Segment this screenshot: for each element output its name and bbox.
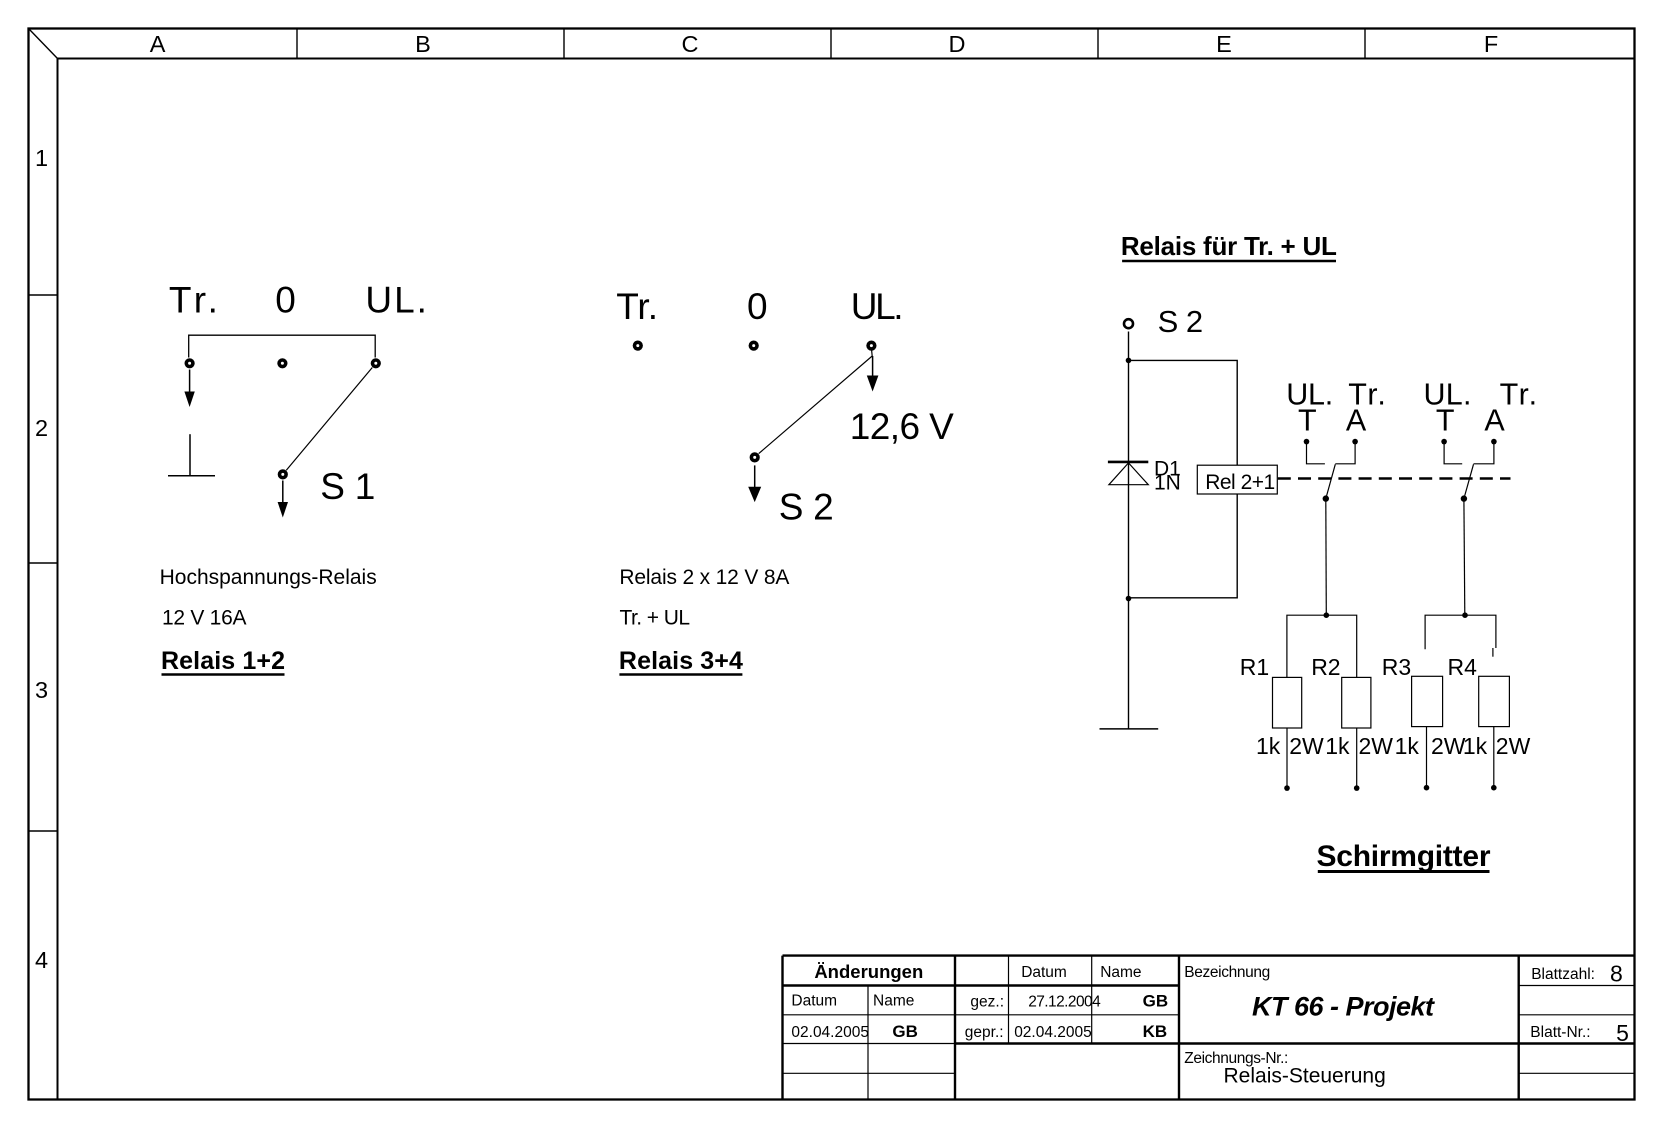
svg-text:A: A (1484, 404, 1505, 438)
arrow to ground from Tr (184, 370, 194, 408)
svg-text:B: B (415, 31, 431, 57)
svg-text:5: 5 (1616, 1020, 1629, 1046)
wire R1R2 header (1287, 615, 1357, 677)
svg-text:T: T (1298, 404, 1317, 438)
svg-text:12,6 V: 12,6 V (850, 406, 954, 447)
svg-text:0: 0 (747, 286, 768, 327)
svg-text:2W: 2W (1289, 733, 1324, 759)
svg-text:A: A (1346, 404, 1367, 438)
svg-text:02.04.2005: 02.04.2005 (1014, 1024, 1092, 1041)
svg-text:Tr. + UL: Tr. + UL (620, 606, 691, 629)
terminal below R2 (1354, 785, 1360, 791)
heading Relais fuer Tr. + UL (1121, 231, 1337, 261)
arrow below S2 pivot (middle) (748, 465, 761, 502)
wire bus S1 (top horizontal with drops) (189, 335, 376, 357)
svg-text:Relais 3+4: Relais 3+4 (619, 647, 743, 675)
svg-text:UL.: UL. (365, 279, 427, 320)
svg-text:GB: GB (892, 1022, 918, 1041)
svg-text:4: 4 (35, 947, 48, 973)
node junction R3R4 (1462, 612, 1468, 618)
wire pivot to junction (group 1) (1325, 499, 1328, 616)
wire relay coil loop (1129, 360, 1238, 597)
terminal A (group 2) (1491, 439, 1497, 445)
terminal T (group 1) (1304, 439, 1310, 445)
switch S1 pivot (278, 469, 288, 479)
svg-text:Blatt-Nr.:: Blatt-Nr.: (1530, 1024, 1590, 1041)
relay contact blade (group 2) (1464, 464, 1474, 498)
svg-text:Name: Name (873, 993, 914, 1010)
svg-text:UL.: UL. (851, 286, 904, 327)
svg-text:Datum: Datum (1021, 964, 1067, 981)
svg-text:S 2: S 2 (1158, 304, 1204, 339)
resistor R4 (1479, 676, 1510, 726)
svg-text:GB: GB (1143, 991, 1169, 1010)
svg-text:gez.:: gez.: (970, 993, 1004, 1010)
svg-text:Schirmgitter: Schirmgitter (1317, 840, 1491, 873)
resistor R3 (1412, 676, 1443, 726)
svg-text:R4: R4 (1448, 654, 1478, 680)
svg-text:2W: 2W (1359, 733, 1394, 759)
heading Schirmgitter (1317, 840, 1491, 873)
svg-text:R1: R1 (1240, 654, 1269, 680)
terminal Tr (middle) (633, 341, 643, 351)
wire below R3 (1426, 727, 1428, 785)
switch S1 blade (286, 368, 372, 471)
terminal below R3 (1424, 785, 1430, 791)
svg-text:KT 66 - Projekt: KT 66 - Projekt (1252, 992, 1435, 1022)
svg-text:2W: 2W (1496, 733, 1531, 759)
svg-text:1k: 1k (1463, 733, 1488, 759)
terminal UL (left) (371, 358, 381, 368)
svg-text:Tr.: Tr. (1500, 377, 1538, 411)
node junction bottom (1126, 596, 1132, 602)
wire pivot to junction (group 2) (1463, 499, 1466, 616)
wire R3R4 header (1425, 615, 1496, 649)
svg-text:Relais für Tr. + UL: Relais für Tr. + UL (1121, 231, 1337, 261)
svg-text:1k: 1k (1256, 733, 1281, 759)
wire stub above R4 (1492, 648, 1494, 657)
svg-text:1k: 1k (1325, 733, 1350, 759)
svg-text:1N: 1N (1154, 472, 1181, 495)
svg-text:Rel 2+1: Rel 2+1 (1205, 471, 1275, 494)
svg-text:3: 3 (35, 677, 48, 703)
svg-text:2: 2 (35, 415, 48, 441)
terminal UL (middle) (866, 341, 876, 351)
svg-text:0: 0 (275, 279, 296, 320)
svg-text:Tr.: Tr. (169, 279, 218, 320)
svg-text:8: 8 (1610, 960, 1623, 986)
mechanical link dashed (1278, 477, 1511, 479)
terminal S2 (right schematic) (1124, 319, 1133, 328)
wire below R1 (1286, 728, 1288, 786)
wire stub below UL (middle) (871, 350, 874, 356)
svg-text:S 1: S 1 (320, 466, 375, 507)
svg-text:Tr.: Tr. (616, 286, 658, 327)
wire main vertical from S2 to ground (1128, 332, 1130, 729)
svg-text:Bezeichnung: Bezeichnung (1184, 964, 1270, 981)
svg-text:27.12.2004: 27.12.2004 (1028, 993, 1101, 1010)
terminal 0 (middle) (749, 341, 759, 351)
resistor R1 (1273, 677, 1302, 728)
pivot node (group 1) (1323, 495, 1329, 501)
svg-text:Änderungen: Änderungen (814, 961, 923, 982)
svg-text:Hochspannungs-Relais: Hochspannungs-Relais (160, 566, 377, 589)
svg-text:1k: 1k (1395, 733, 1420, 759)
ground (right schematic) (1100, 728, 1159, 730)
arrow 12,6 V feed (867, 356, 879, 392)
wire from A (group 2) (1474, 444, 1494, 464)
node junction top (1126, 358, 1132, 364)
wire from A (group 1) (1335, 444, 1355, 464)
terminal 0 (left) (277, 358, 287, 368)
svg-text:Blattzahl:: Blattzahl: (1531, 966, 1595, 983)
wire from T (group 1) (1307, 444, 1325, 464)
wire below R2 (1356, 728, 1358, 786)
svg-text:1: 1 (35, 145, 48, 171)
switch S2 pivot (middle) (750, 452, 760, 462)
node junction R1R2 (1324, 612, 1330, 618)
svg-text:S 2: S 2 (779, 487, 834, 528)
svg-text:Relais 2 x 12 V 8A: Relais 2 x 12 V 8A (619, 566, 789, 589)
relay coil box Rel 2+1 (1197, 465, 1277, 494)
terminal below R1 (1284, 785, 1290, 791)
svg-text:A: A (150, 31, 166, 57)
svg-text:2W: 2W (1431, 733, 1466, 759)
wire below R4 (1493, 727, 1495, 785)
terminal Tr (left) (185, 358, 195, 368)
svg-text:Relais 1+2: Relais 1+2 (161, 647, 285, 675)
svg-text:12 V 16A: 12 V 16A (162, 606, 247, 629)
svg-text:F: F (1484, 31, 1498, 57)
svg-text:E: E (1216, 31, 1232, 57)
caption Relais 1+2 (161, 647, 285, 675)
svg-text:gepr.:: gepr.: (965, 1024, 1004, 1041)
relay contact blade (group 1) (1326, 464, 1336, 498)
svg-text:Name: Name (1100, 964, 1141, 981)
resistor R2 (1342, 677, 1371, 728)
title block grid (783, 956, 1635, 1099)
svg-text:T: T (1436, 404, 1455, 438)
svg-text:02.04.2005: 02.04.2005 (791, 1024, 869, 1041)
wire from T (group 2) (1444, 444, 1462, 464)
terminal A (group 1) (1352, 439, 1358, 445)
svg-text:C: C (682, 31, 699, 57)
svg-text:Relais-Steuerung: Relais-Steuerung (1224, 1064, 1386, 1087)
svg-text:D: D (949, 31, 966, 57)
caption Relais 3+4 (619, 647, 743, 675)
pivot node (group 2) (1461, 495, 1467, 501)
svg-text:R2: R2 (1311, 654, 1340, 680)
terminal below R4 (1491, 785, 1497, 791)
switch S2 blade (middle) (759, 356, 873, 454)
arrow below S1 pivot (278, 481, 288, 518)
title block texts (791, 960, 1628, 1087)
ground (left schematic) (168, 434, 215, 476)
svg-text:R3: R3 (1382, 654, 1411, 680)
terminal T (group 2) (1441, 439, 1447, 445)
svg-text:KB: KB (1143, 1022, 1168, 1041)
svg-text:Datum: Datum (791, 993, 837, 1010)
diode D1 (1108, 462, 1148, 485)
